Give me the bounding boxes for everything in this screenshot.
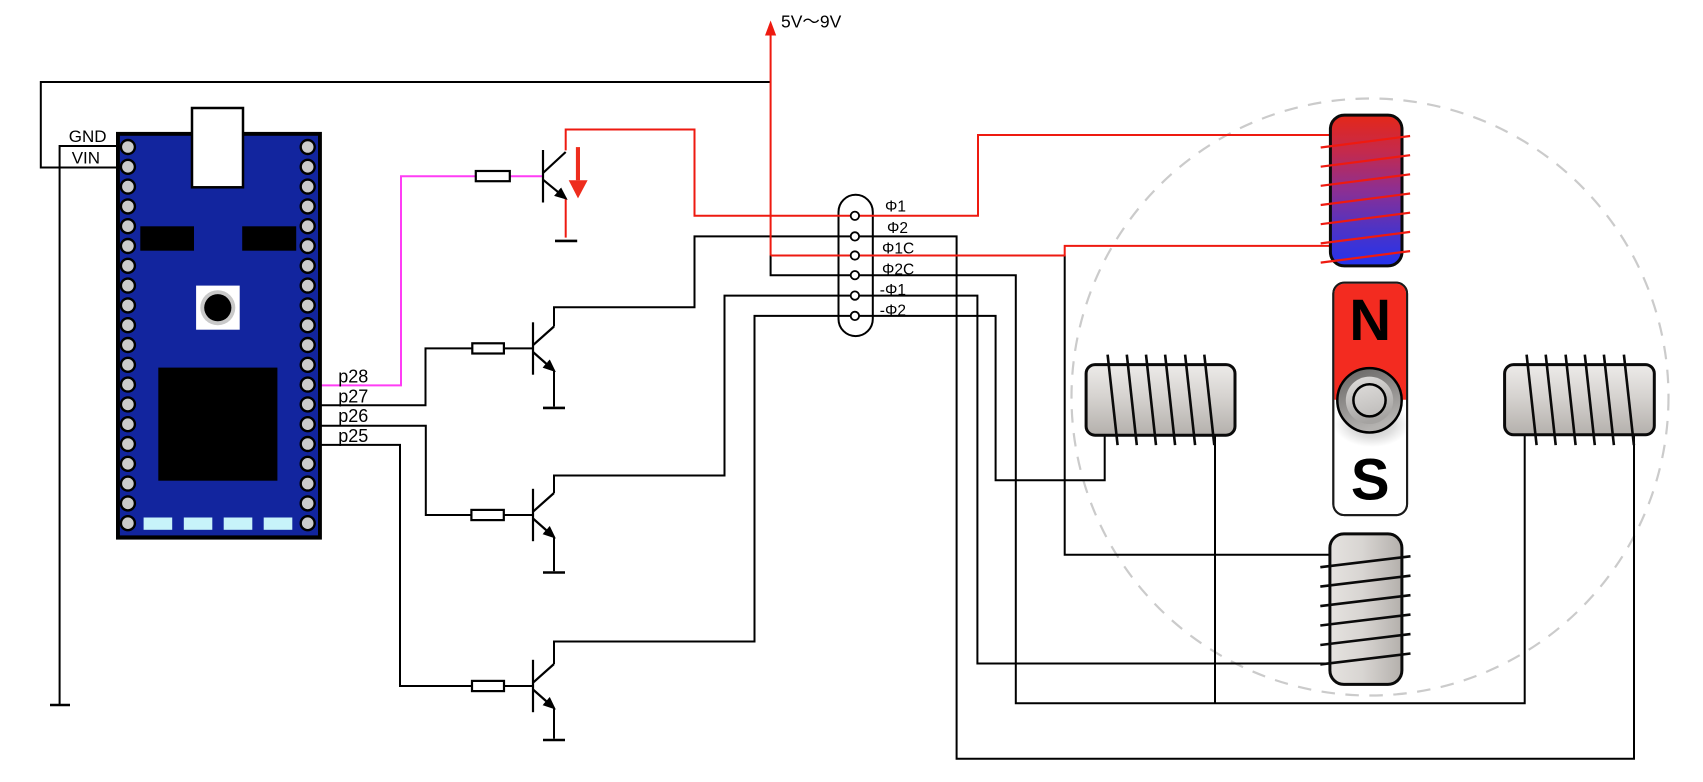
svg-text:p28: p28 (338, 366, 368, 386)
svg-text:-Φ1: -Φ1 (880, 282, 906, 299)
svg-text:GND: GND (69, 127, 107, 146)
svg-text:p25: p25 (338, 426, 368, 446)
svg-text:VIN: VIN (72, 148, 100, 167)
svg-text:-Φ2: -Φ2 (880, 303, 906, 320)
svg-text:N: N (1349, 288, 1391, 353)
svg-text:5V～9V: 5V～9V (781, 12, 842, 32)
svg-text:p26: p26 (338, 406, 368, 426)
svg-text:p27: p27 (338, 386, 368, 406)
svg-text:S: S (1351, 448, 1390, 513)
svg-text:Φ1: Φ1 (885, 199, 906, 216)
svg-text:Φ2C: Φ2C (882, 261, 914, 278)
svg-text:Φ2: Φ2 (887, 220, 908, 237)
svg-text:Φ1C: Φ1C (882, 241, 914, 258)
